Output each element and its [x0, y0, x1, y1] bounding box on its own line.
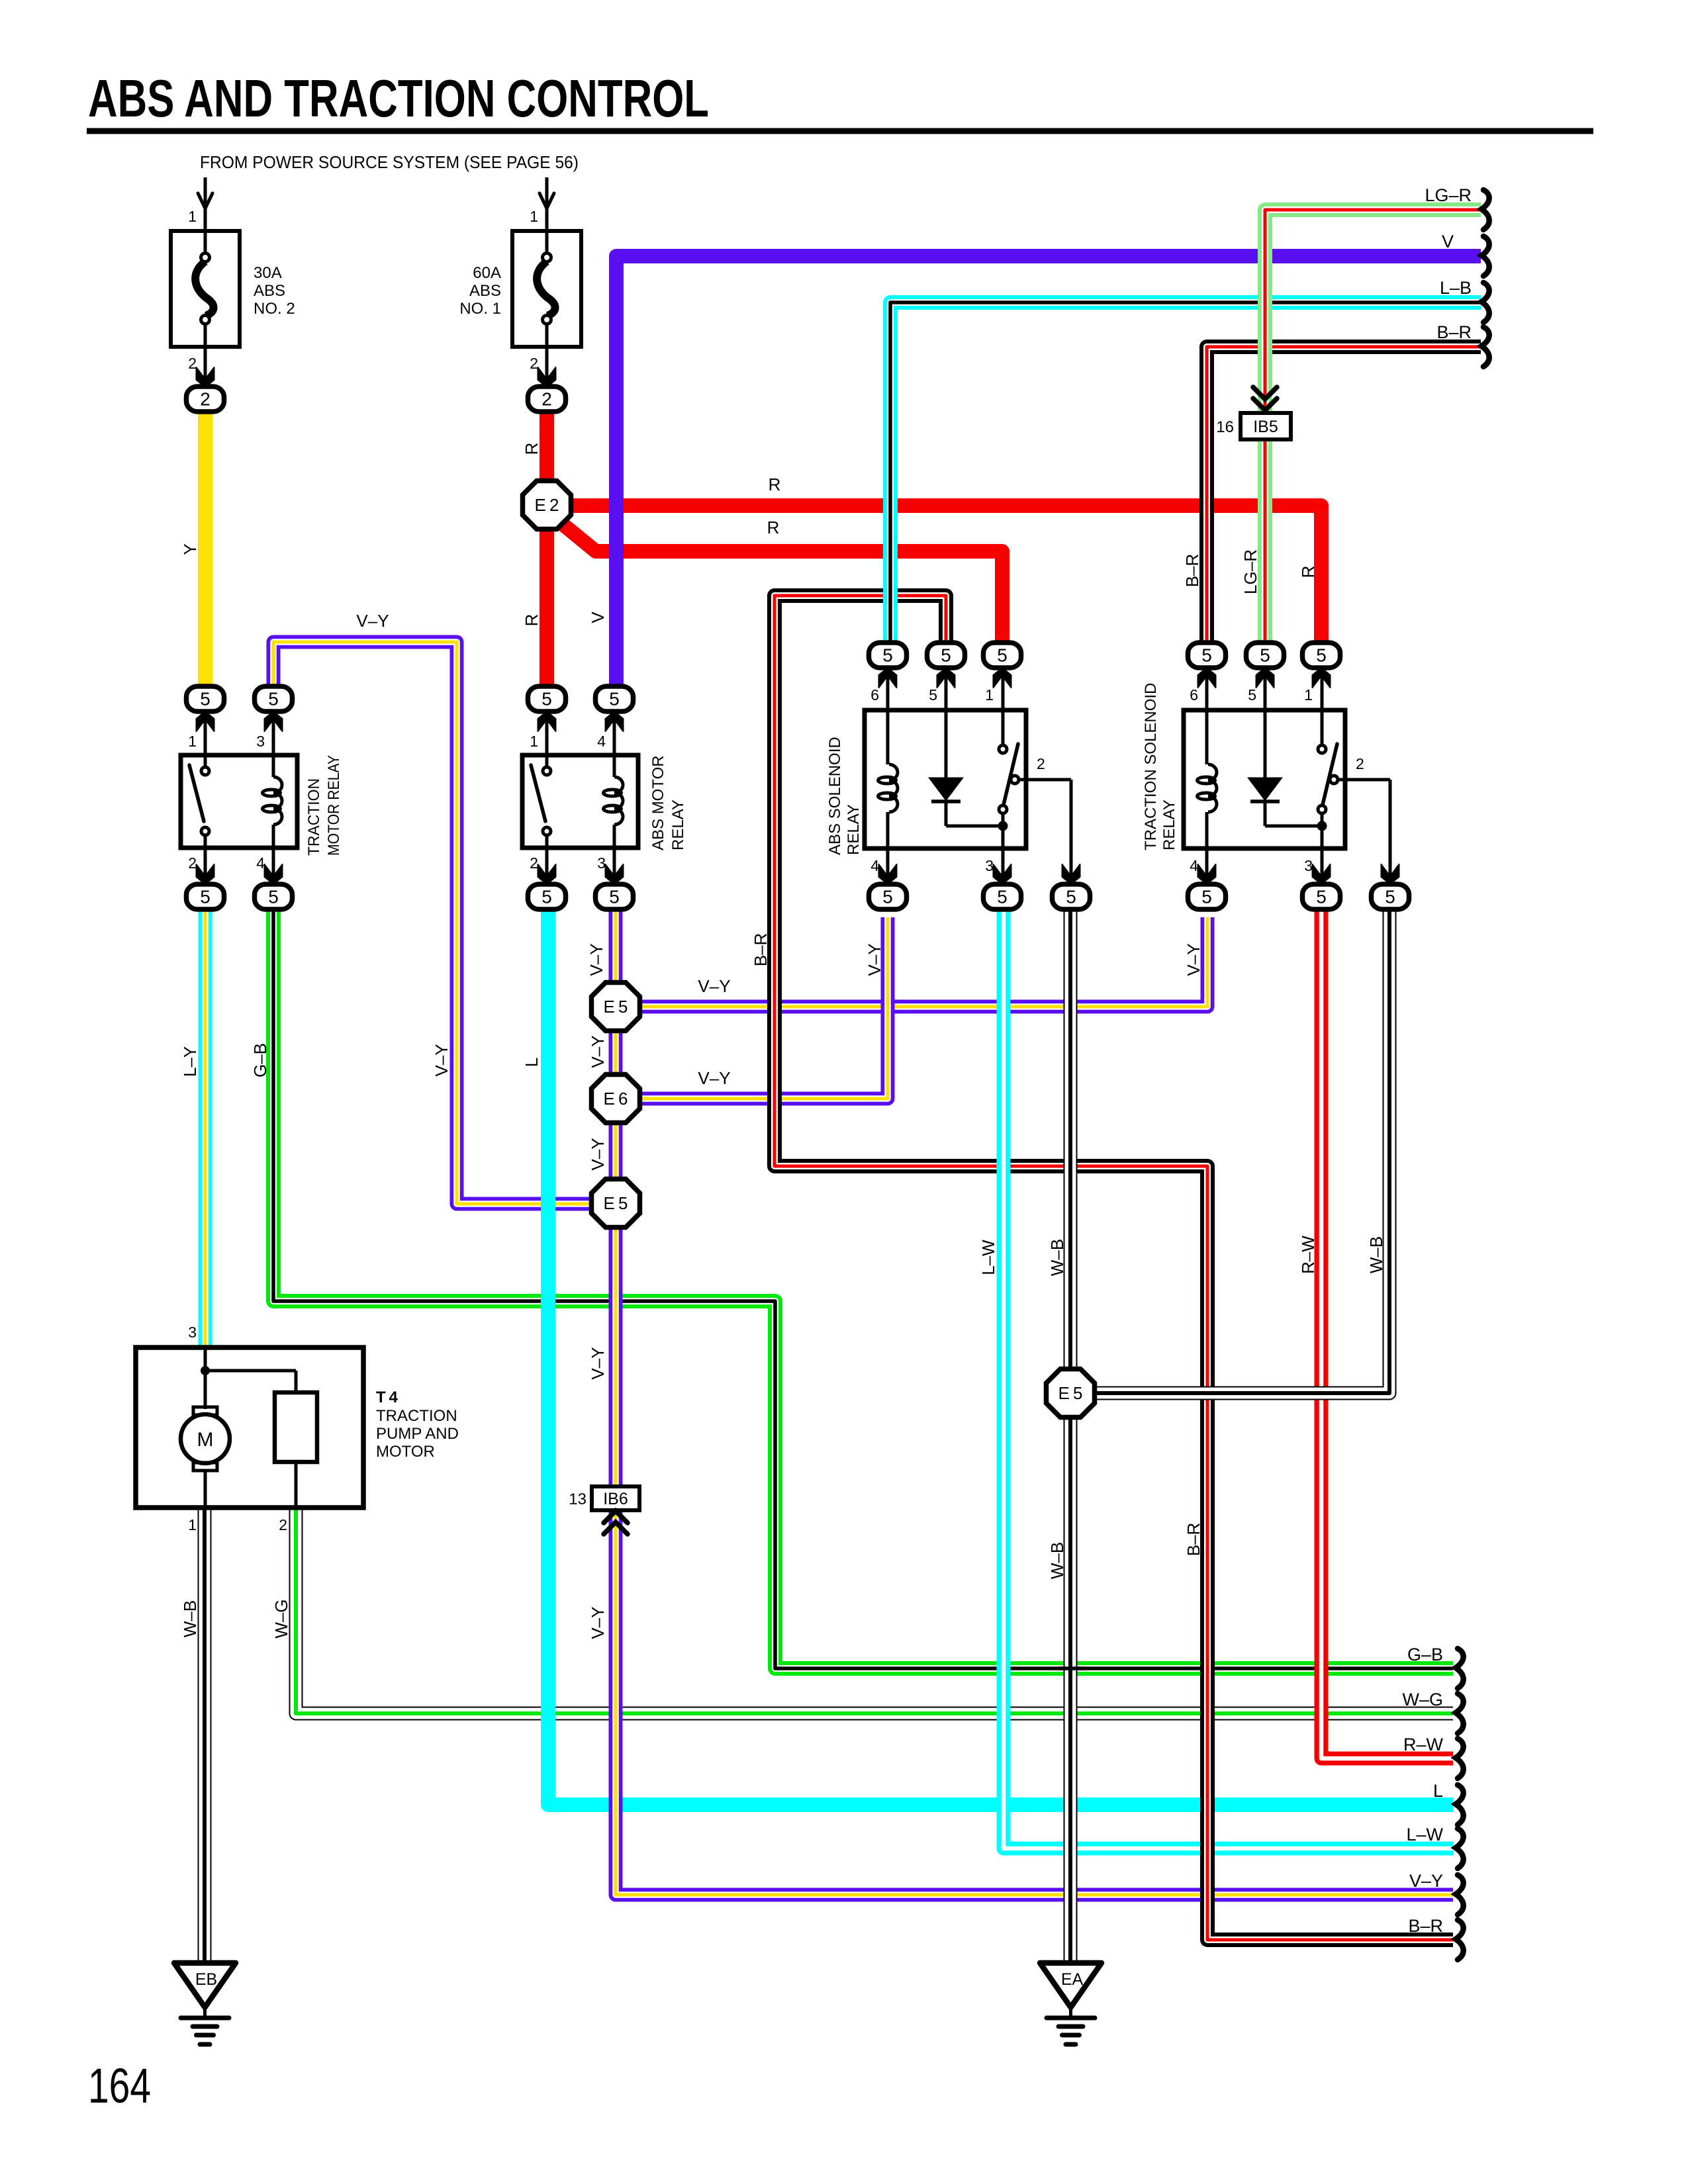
svg-text:1: 1	[985, 686, 994, 704]
svg-text:164: 164	[88, 2058, 151, 2113]
wire W-B from ABS solenoid relay pin 2 to ground EA	[1064, 909, 1078, 1962]
svg-text:2: 2	[200, 389, 211, 410]
relay traction solenoid relay	[1184, 668, 1390, 884]
connector oval 5 - traction solenoid relay pin 2	[1372, 884, 1409, 909]
connector oval 5 - ABS motor relay pin 1	[528, 686, 566, 711]
harness continuation brace	[1456, 1739, 1464, 1778]
svg-text:FROM POWER SOURCE SYSTEM (SEE: FROM POWER SOURCE SYSTEM (SEE PAGE 56)	[200, 152, 579, 172]
connector oval 5 - traction solenoid relay pin 4	[1188, 884, 1226, 909]
connector oval 5 - traction motor relay pin 2	[187, 884, 224, 909]
wire W-G from T4 pin 2 to right edge	[296, 1508, 1453, 1713]
svg-text:3: 3	[188, 1324, 197, 1341]
svg-text:W–B: W–B	[180, 1600, 200, 1637]
wire R from fuse ABS NO.1 to E2	[539, 411, 554, 484]
svg-text:G–B: G–B	[250, 1043, 270, 1077]
wire L-B from right edge to ABS solenoid relay pin 6	[890, 302, 1481, 655]
svg-text:5: 5	[541, 887, 552, 907]
connector octagon E5	[592, 983, 640, 1031]
relay traction motor relay	[181, 711, 297, 884]
component T4 traction pump and motor	[136, 1347, 363, 1508]
wire B-R vertical segment right	[1200, 1174, 1215, 1932]
svg-text:6: 6	[870, 686, 879, 704]
connector octagon E6	[592, 1075, 640, 1123]
wire L-W vertical segment	[997, 920, 1011, 1840]
fuse lower lead	[545, 347, 549, 384]
connector oval 5 - ABS solenoid relay pin 4	[869, 884, 907, 909]
svg-text:5: 5	[1316, 887, 1327, 907]
harness continuation brace	[1456, 1785, 1464, 1825]
svg-text:V–Y: V–Y	[698, 1068, 730, 1088]
connector oval 5 - ABS motor relay pin 2	[528, 884, 566, 909]
harness continuation brace	[1456, 1875, 1464, 1915]
svg-text:T 4: T 4	[376, 1388, 398, 1406]
wire L from ABS motor relay pin 2 to right edge	[548, 909, 1453, 1805]
svg-text:4: 4	[870, 857, 879, 874]
svg-text:L–W: L–W	[1406, 1825, 1443, 1844]
svg-text:R: R	[522, 614, 541, 627]
connector oval 5 - traction solenoid relay pin 3	[1303, 884, 1340, 909]
connector octagon E5	[1047, 1369, 1095, 1418]
connector octagon E2	[523, 481, 571, 529]
wire V-Y vertical segment to ABS solenoid pin 4	[881, 920, 895, 1089]
svg-text:W–B: W–B	[1366, 1236, 1386, 1273]
svg-text:B–R: B–R	[1182, 554, 1202, 588]
wire G-B from traction motor relay pin 4 to right edge	[273, 909, 1453, 1668]
svg-text:E 5: E 5	[603, 997, 628, 1017]
connector oval 5 - traction motor relay pin 1	[187, 686, 224, 711]
wire B-R from right edge to traction solenoid relay pin 6	[1207, 347, 1481, 655]
svg-text:LG–R: LG–R	[1241, 549, 1260, 594]
connector oval 5 - traction solenoid relay pin 5	[1246, 643, 1284, 668]
svg-text:6: 6	[1190, 686, 1198, 704]
connector oval 5 - traction solenoid relay pin 1	[1303, 643, 1340, 668]
svg-text:V–Y: V–Y	[432, 1044, 451, 1076]
title underline	[87, 128, 1593, 134]
svg-text:4: 4	[1190, 857, 1198, 874]
arrow into connector oval below fuse	[538, 367, 556, 387]
svg-text:L–B: L–B	[1440, 278, 1472, 298]
svg-text:1: 1	[530, 733, 538, 750]
svg-text:V–Y: V–Y	[356, 611, 389, 631]
wire W-B from T4 pin 1 to ground EB	[198, 1508, 212, 1962]
svg-text:1: 1	[188, 208, 197, 225]
connector oval 5 - ABS solenoid relay pin 3	[984, 884, 1021, 909]
svg-text:R–W: R–W	[1403, 1735, 1444, 1754]
arrow pin 1 ABS motor relay	[538, 711, 556, 731]
svg-text:E 5: E 5	[603, 1193, 628, 1213]
svg-text:2: 2	[530, 854, 538, 872]
svg-text:R: R	[767, 518, 780, 537]
harness continuation brace	[1481, 190, 1489, 230]
arrow pin 6 ABS solenoid relay	[879, 668, 897, 688]
svg-text:2: 2	[188, 854, 197, 872]
arrow pin 3 traction motor relay	[265, 711, 283, 731]
svg-text:3: 3	[985, 857, 994, 874]
svg-text:2: 2	[279, 1516, 287, 1533]
svg-text:2: 2	[541, 389, 552, 410]
svg-text:5: 5	[541, 689, 552, 709]
arrow pin 3 traction solenoid relay	[1313, 864, 1331, 884]
svg-text:R: R	[522, 443, 541, 455]
fuse 60A ABS NO. 1 fuse	[512, 231, 581, 347]
svg-text:L: L	[1433, 1781, 1443, 1801]
svg-text:L: L	[522, 1058, 541, 1067]
arrow into connector oval below fuse	[197, 367, 214, 387]
wire B-R loop from ABS solenoid relay pin 5 to right edge	[774, 596, 1453, 1940]
connector IB5 with pin 16	[1216, 387, 1291, 439]
svg-text:B–R: B–R	[1184, 1523, 1203, 1557]
connector oval 5 - ABS solenoid relay pin 5	[927, 643, 965, 668]
wire R-W vertical segment	[1315, 920, 1329, 1751]
svg-text:RELAY: RELAY	[669, 799, 687, 850]
arrow pin 4 ABS solenoid relay	[879, 864, 897, 884]
arrow pin 1 ABS solenoid relay	[994, 668, 1011, 688]
svg-text:V–Y: V–Y	[586, 943, 606, 976]
svg-text:5: 5	[941, 645, 951, 666]
harness continuation brace	[1481, 236, 1489, 276]
harness continuation brace	[1456, 1829, 1464, 1868]
svg-text:1: 1	[188, 1516, 197, 1533]
relay ABS solenoid relay	[865, 668, 1071, 884]
wire L-Y from traction motor relay pin 2 to T4 pin 3	[199, 909, 212, 1347]
wire V from fuse ABS NO.1 branch to ABS motor relay pin 4 and right edge	[616, 256, 1481, 687]
arrow pin 5 ABS solenoid relay	[937, 668, 955, 688]
arrow pin 4 traction motor relay	[265, 864, 283, 884]
svg-text:R: R	[1298, 566, 1318, 578]
svg-text:TRACTION SOLENOID: TRACTION SOLENOID	[1142, 683, 1160, 850]
svg-text:3: 3	[1304, 857, 1313, 874]
wire V-Y from E5 to traction solenoid relay pin 4	[616, 917, 1207, 1007]
arrow pin 3 ABS solenoid relay	[994, 864, 1011, 884]
svg-text:W–B: W–B	[1047, 1239, 1067, 1276]
svg-text:RELAY: RELAY	[845, 804, 863, 855]
svg-text:G–B: G–B	[1407, 1645, 1443, 1664]
svg-text:W–B: W–B	[1047, 1542, 1067, 1579]
svg-text:V–Y: V–Y	[588, 1035, 608, 1068]
svg-text:E 2: E 2	[534, 495, 559, 515]
arrow pin 5 traction solenoid relay	[1256, 668, 1274, 688]
svg-text:5: 5	[609, 689, 620, 709]
relay ABS motor relay	[522, 711, 638, 884]
svg-text:IB5: IB5	[1253, 418, 1278, 436]
svg-text:5: 5	[268, 689, 279, 709]
svg-text:ABS SOLENOID: ABS SOLENOID	[826, 737, 844, 855]
svg-text:2: 2	[188, 355, 197, 372]
wire W-B vertical segment traction pin 2	[1383, 920, 1397, 1383]
svg-text:5: 5	[609, 887, 620, 907]
arrow pin 1 traction motor relay	[197, 711, 214, 731]
wire R from E2 to traction solenoid relay pin 1	[568, 506, 1321, 655]
svg-text:ABS AND TRACTION CONTROL: ABS AND TRACTION CONTROL	[88, 69, 709, 128]
svg-text:W–G: W–G	[271, 1599, 291, 1638]
ground EA	[1040, 1963, 1102, 2044]
svg-text:V–Y: V–Y	[1184, 943, 1203, 976]
wire W-B horizontal segment to E5	[1094, 1387, 1382, 1400]
svg-text:5: 5	[1385, 887, 1395, 907]
svg-text:2: 2	[1356, 755, 1364, 772]
svg-text:5: 5	[200, 887, 211, 907]
svg-text:M: M	[197, 1429, 214, 1451]
svg-text:L–Y: L–Y	[180, 1046, 200, 1077]
svg-text:V–Y: V–Y	[1409, 1871, 1443, 1891]
svg-text:5: 5	[1201, 887, 1212, 907]
svg-text:5: 5	[268, 887, 279, 907]
ground EB	[174, 1963, 236, 2044]
svg-text:TRACTION: TRACTION	[305, 778, 323, 856]
svg-text:1: 1	[1304, 686, 1313, 704]
svg-text:B–R: B–R	[1436, 322, 1472, 342]
connector octagon E5	[592, 1179, 640, 1228]
svg-text:MOTOR RELAY: MOTOR RELAY	[325, 755, 343, 856]
arrow pin 4 ABS motor relay	[606, 711, 624, 731]
svg-text:5: 5	[1066, 887, 1076, 907]
wire R-W from traction solenoid relay pin 3 to right edge	[1321, 909, 1453, 1758]
svg-text:5: 5	[882, 887, 893, 907]
svg-text:R–W: R–W	[1298, 1236, 1318, 1274]
svg-text:L–W: L–W	[978, 1240, 998, 1275]
svg-text:E 5: E 5	[1058, 1383, 1082, 1403]
harness continuation brace	[1456, 1920, 1464, 1960]
harness continuation brace	[1456, 1649, 1464, 1688]
svg-text:5: 5	[1201, 645, 1212, 666]
wire R from E2 to ABS solenoid relay pin 1	[559, 522, 1002, 655]
wire G-B core across W-B crossing	[1058, 1666, 1086, 1670]
wire V-Y from ABS motor relay pin 3 through E5 E6 IB6 to right edge	[616, 909, 1453, 1895]
connector oval 5 - traction motor relay pin 3	[255, 686, 293, 711]
svg-text:Y: Y	[180, 543, 200, 555]
wire V-Y from traction motor relay pin 3 to E5 lower	[273, 642, 616, 1204]
svg-text:V: V	[1442, 232, 1454, 251]
wire B-R vertical segment left	[767, 604, 782, 1158]
svg-text:16: 16	[1216, 418, 1234, 436]
svg-text:V–Y: V–Y	[588, 1347, 608, 1379]
wire R from E2 to ABS motor relay pin 1	[539, 526, 554, 687]
svg-text:5: 5	[1248, 686, 1256, 704]
fuse 30A ABS NO. 2 fuse	[171, 231, 240, 347]
wire Y from fuse ABS NO.2 to traction motor relay pin 1	[198, 410, 212, 687]
svg-text:5: 5	[929, 686, 937, 704]
svg-text:4: 4	[597, 733, 606, 750]
arrow pin 2 traction solenoid relay	[1382, 864, 1399, 884]
connector oval 2 below fuse	[528, 387, 566, 412]
svg-text:5: 5	[882, 645, 893, 666]
arrow pin 2 traction motor relay	[197, 864, 214, 884]
svg-text:V: V	[588, 612, 608, 623]
svg-text:IB6: IB6	[603, 1490, 628, 1508]
wire V-Y vertical segment below E5 lower	[609, 1243, 623, 1886]
svg-text:5: 5	[1260, 645, 1270, 666]
svg-text:3: 3	[597, 854, 606, 872]
wire W-B vertical segment to EA	[1064, 920, 1078, 1952]
connector oval 5 - ABS motor relay pin 3	[596, 884, 633, 909]
svg-text:5: 5	[1316, 645, 1327, 666]
wire V-Y from E6 to ABS solenoid relay pin 4	[616, 917, 888, 1099]
harness continuation brace	[1481, 283, 1489, 322]
svg-text:R: R	[769, 475, 781, 494]
fuse lower lead	[204, 347, 207, 384]
arrow pin 1 traction solenoid relay	[1313, 668, 1331, 688]
connector oval 5 - ABS motor relay pin 4	[596, 686, 633, 711]
arrow pin 3 ABS motor relay	[606, 864, 624, 884]
harness continuation brace	[1481, 327, 1489, 367]
svg-text:EB: EB	[195, 1970, 217, 1989]
connector oval 5 - traction solenoid relay pin 6	[1188, 643, 1226, 668]
connector oval 2 below fuse	[187, 387, 224, 412]
svg-text:1: 1	[530, 208, 538, 225]
svg-text:3: 3	[256, 733, 265, 750]
svg-text:5: 5	[200, 689, 211, 709]
wire L-W from ABS solenoid relay pin 3 to right edge	[1004, 909, 1453, 1848]
wire LG-R from right edge through IB5 to traction solenoid relay pin 5	[1265, 210, 1481, 655]
svg-text:V–Y: V–Y	[865, 943, 884, 976]
svg-text:RELAY: RELAY	[1160, 799, 1178, 850]
harness continuation brace	[1456, 1694, 1464, 1733]
svg-text:13: 13	[569, 1490, 586, 1508]
connector oval 5 - ABS solenoid relay pin 6	[869, 643, 907, 668]
svg-text:1: 1	[188, 733, 197, 750]
svg-text:2: 2	[1037, 755, 1045, 772]
svg-text:W–G: W–G	[1402, 1690, 1443, 1709]
arrow pin 2 ABS motor relay	[538, 864, 556, 884]
svg-text:4: 4	[256, 854, 265, 872]
wire L vertical segment	[541, 920, 555, 1796]
connector oval 5 - ABS solenoid relay pin 2	[1053, 884, 1090, 909]
power feed arrow into 30A ABS NO. 2 fuse	[198, 177, 212, 231]
svg-text:2: 2	[530, 355, 538, 372]
power feed arrow into 60A ABS NO. 1 fuse	[539, 177, 554, 231]
svg-text:5: 5	[997, 645, 1008, 666]
arrow pin 2 ABS solenoid relay	[1062, 864, 1080, 884]
svg-text:V–Y: V–Y	[698, 976, 730, 996]
arrow pin 4 traction solenoid relay	[1198, 864, 1216, 884]
svg-text:B–R: B–R	[1408, 1916, 1443, 1936]
svg-text:E 6: E 6	[603, 1089, 628, 1109]
svg-text:ABS MOTOR: ABS MOTOR	[649, 755, 667, 850]
svg-text:V–Y: V–Y	[588, 1606, 608, 1639]
arrow pin 6 traction solenoid relay	[1198, 668, 1216, 688]
connector oval 5 - ABS solenoid relay pin 1	[984, 643, 1021, 668]
connector IB6 with pin 13	[569, 1486, 639, 1534]
svg-text:5: 5	[997, 887, 1008, 907]
svg-text:EA: EA	[1061, 1970, 1084, 1989]
svg-text:LG–R: LG–R	[1425, 185, 1472, 205]
wire W-B from traction solenoid relay pin 2 to E5	[1094, 909, 1389, 1393]
connector oval 5 - traction motor relay pin 4	[255, 884, 293, 909]
svg-text:V–Y: V–Y	[588, 1138, 608, 1170]
svg-text:B–R: B–R	[751, 933, 771, 967]
